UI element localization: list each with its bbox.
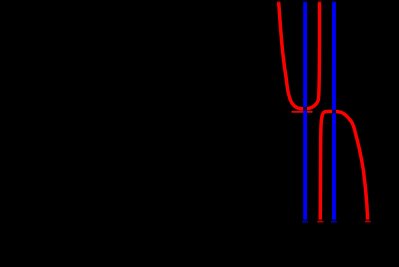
black area below the axes box [0,221,399,262]
axis foot blob under red asymptote branch [317,221,323,223]
red curve: right branch (hump right of asymptote) [320,111,367,221]
axis foot blob under hump right tail [365,221,371,223]
blue vertical line 2 (right critical point) [332,1,336,221]
blue vertical line 1 (left critical point) [303,1,307,221]
dark blend patch where blue line 1 crosses the red U bottom [303,107,307,111]
red curve: left branch (U between asymptotes) [279,1,320,109]
thin red echo line under the U minimum [292,111,313,113]
axis foot blob under blue line 2 [331,221,337,223]
bottom fade of plot clip [0,219,399,222]
axis foot blob under blue line 1 [302,221,308,223]
dark blend patch where blue line 2 crosses the red hump top [332,110,336,114]
top fade of plot clip [0,0,399,3]
